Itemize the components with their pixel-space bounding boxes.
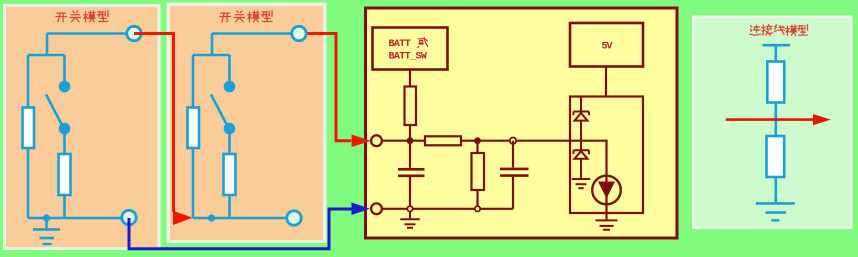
ground G1 bottom rail xyxy=(400,212,419,228)
capacitor C1 xyxy=(398,141,425,209)
ground panel1 xyxy=(33,218,60,244)
open node node5 xyxy=(475,206,480,211)
switch S2 contact dot lower xyxy=(224,123,236,135)
5V box xyxy=(570,23,643,67)
wire left-lower P2 xyxy=(192,148,195,218)
title panel2 开关模型 xyxy=(220,11,272,22)
wire resistor to main rail xyxy=(409,125,411,141)
current source triangle xyxy=(598,182,615,199)
wire top P1 xyxy=(47,32,127,35)
switch S1 blade xyxy=(46,95,63,128)
resistor R2 panel1 xyxy=(59,154,71,195)
arrowhead red net1 xyxy=(173,211,193,225)
wire blue net2 P1 to power xyxy=(129,209,352,249)
svg-text:5V: 5V xyxy=(602,42,613,53)
resistor R6 horizontal xyxy=(425,136,461,145)
ground G3 current source xyxy=(596,220,618,229)
terminal tick top xyxy=(763,44,791,47)
resistor R7 vertical mid xyxy=(472,144,485,209)
wire main rail left xyxy=(382,140,426,142)
terminal circle panel1 top xyxy=(127,26,141,40)
arrowhead signal arrow xyxy=(813,114,831,125)
connection line model panel frame xyxy=(692,16,853,230)
switch S1 contact dot lower xyxy=(59,123,71,135)
wire 5V to subckt box xyxy=(605,67,607,97)
wire red net3 P2 to power xyxy=(308,34,352,141)
svg-text:BATT: BATT xyxy=(389,39,411,50)
ground G4 right panel xyxy=(756,203,795,220)
switch S2 blade xyxy=(211,95,228,128)
wire switch to resistor P1 xyxy=(63,134,66,218)
wire tick to R8 xyxy=(774,45,777,61)
ground G2 diode branch xyxy=(572,164,590,188)
resistor R8 xyxy=(767,62,784,103)
junction dot panel1 bottom xyxy=(43,214,50,221)
title panel1 开关模型 xyxy=(56,11,108,22)
wire red net1 P1 to P2 xyxy=(134,34,174,213)
BATT box xyxy=(373,28,448,70)
switch model panel 2 frame xyxy=(167,3,327,244)
terminal circle panel2 top xyxy=(292,26,306,40)
wire main rail right xyxy=(461,141,607,176)
wire left-lower P1 xyxy=(27,148,30,218)
resistor R1 panel1 xyxy=(23,108,35,149)
current source U1 xyxy=(592,176,621,205)
wire BATT to resistor xyxy=(409,70,411,87)
resistor R9 xyxy=(767,136,785,177)
wire source to ground xyxy=(605,204,607,219)
zener diode D1 xyxy=(574,97,590,141)
BATT label Chinese 或 xyxy=(418,37,428,47)
switch S2 contact dot upper xyxy=(224,81,236,93)
open node node3 xyxy=(510,138,516,144)
arrowhead red net3 xyxy=(352,135,372,148)
current source stem xyxy=(605,176,607,204)
wire bottom P1 xyxy=(28,217,123,220)
switch model panel 1 frame xyxy=(3,4,161,250)
wire split P1 xyxy=(28,34,65,108)
wire bottom rail xyxy=(382,208,514,210)
subcircuit box xyxy=(570,97,643,214)
wire switch to resistor P2 xyxy=(228,134,231,218)
wire R9 to ground xyxy=(774,177,777,203)
title right panel 连接线模型 xyxy=(750,25,808,36)
junction dot panel2 bottom xyxy=(208,214,215,221)
arrowhead blue net2 xyxy=(352,203,371,216)
terminal circle panel2 bottom xyxy=(287,211,301,225)
resistor R4 panel2 xyxy=(224,154,236,195)
junction dot node2 xyxy=(474,137,481,144)
wire bottom P2 xyxy=(193,217,287,220)
wire R8 to R9 xyxy=(774,103,777,137)
power model panel (yellow) frame xyxy=(366,8,678,238)
resistor R5 vertical xyxy=(405,87,417,126)
terminal circle panel1 bottom xyxy=(122,210,136,224)
wire split P2 xyxy=(193,34,230,108)
wire top P2 xyxy=(212,32,292,35)
zener diode D2 xyxy=(574,141,590,164)
signal arrow red right panel xyxy=(726,118,814,121)
svg-text:BATT_SW: BATT_SW xyxy=(389,52,427,63)
junction dot node1 xyxy=(407,137,414,144)
resistor R3 panel2 xyxy=(188,108,200,149)
switch S1 contact dot upper xyxy=(59,81,71,93)
open node node4 xyxy=(407,206,412,211)
terminal T1 power input xyxy=(371,135,382,146)
terminal T2 power input low xyxy=(371,203,382,214)
capacitor C2 xyxy=(500,141,529,209)
